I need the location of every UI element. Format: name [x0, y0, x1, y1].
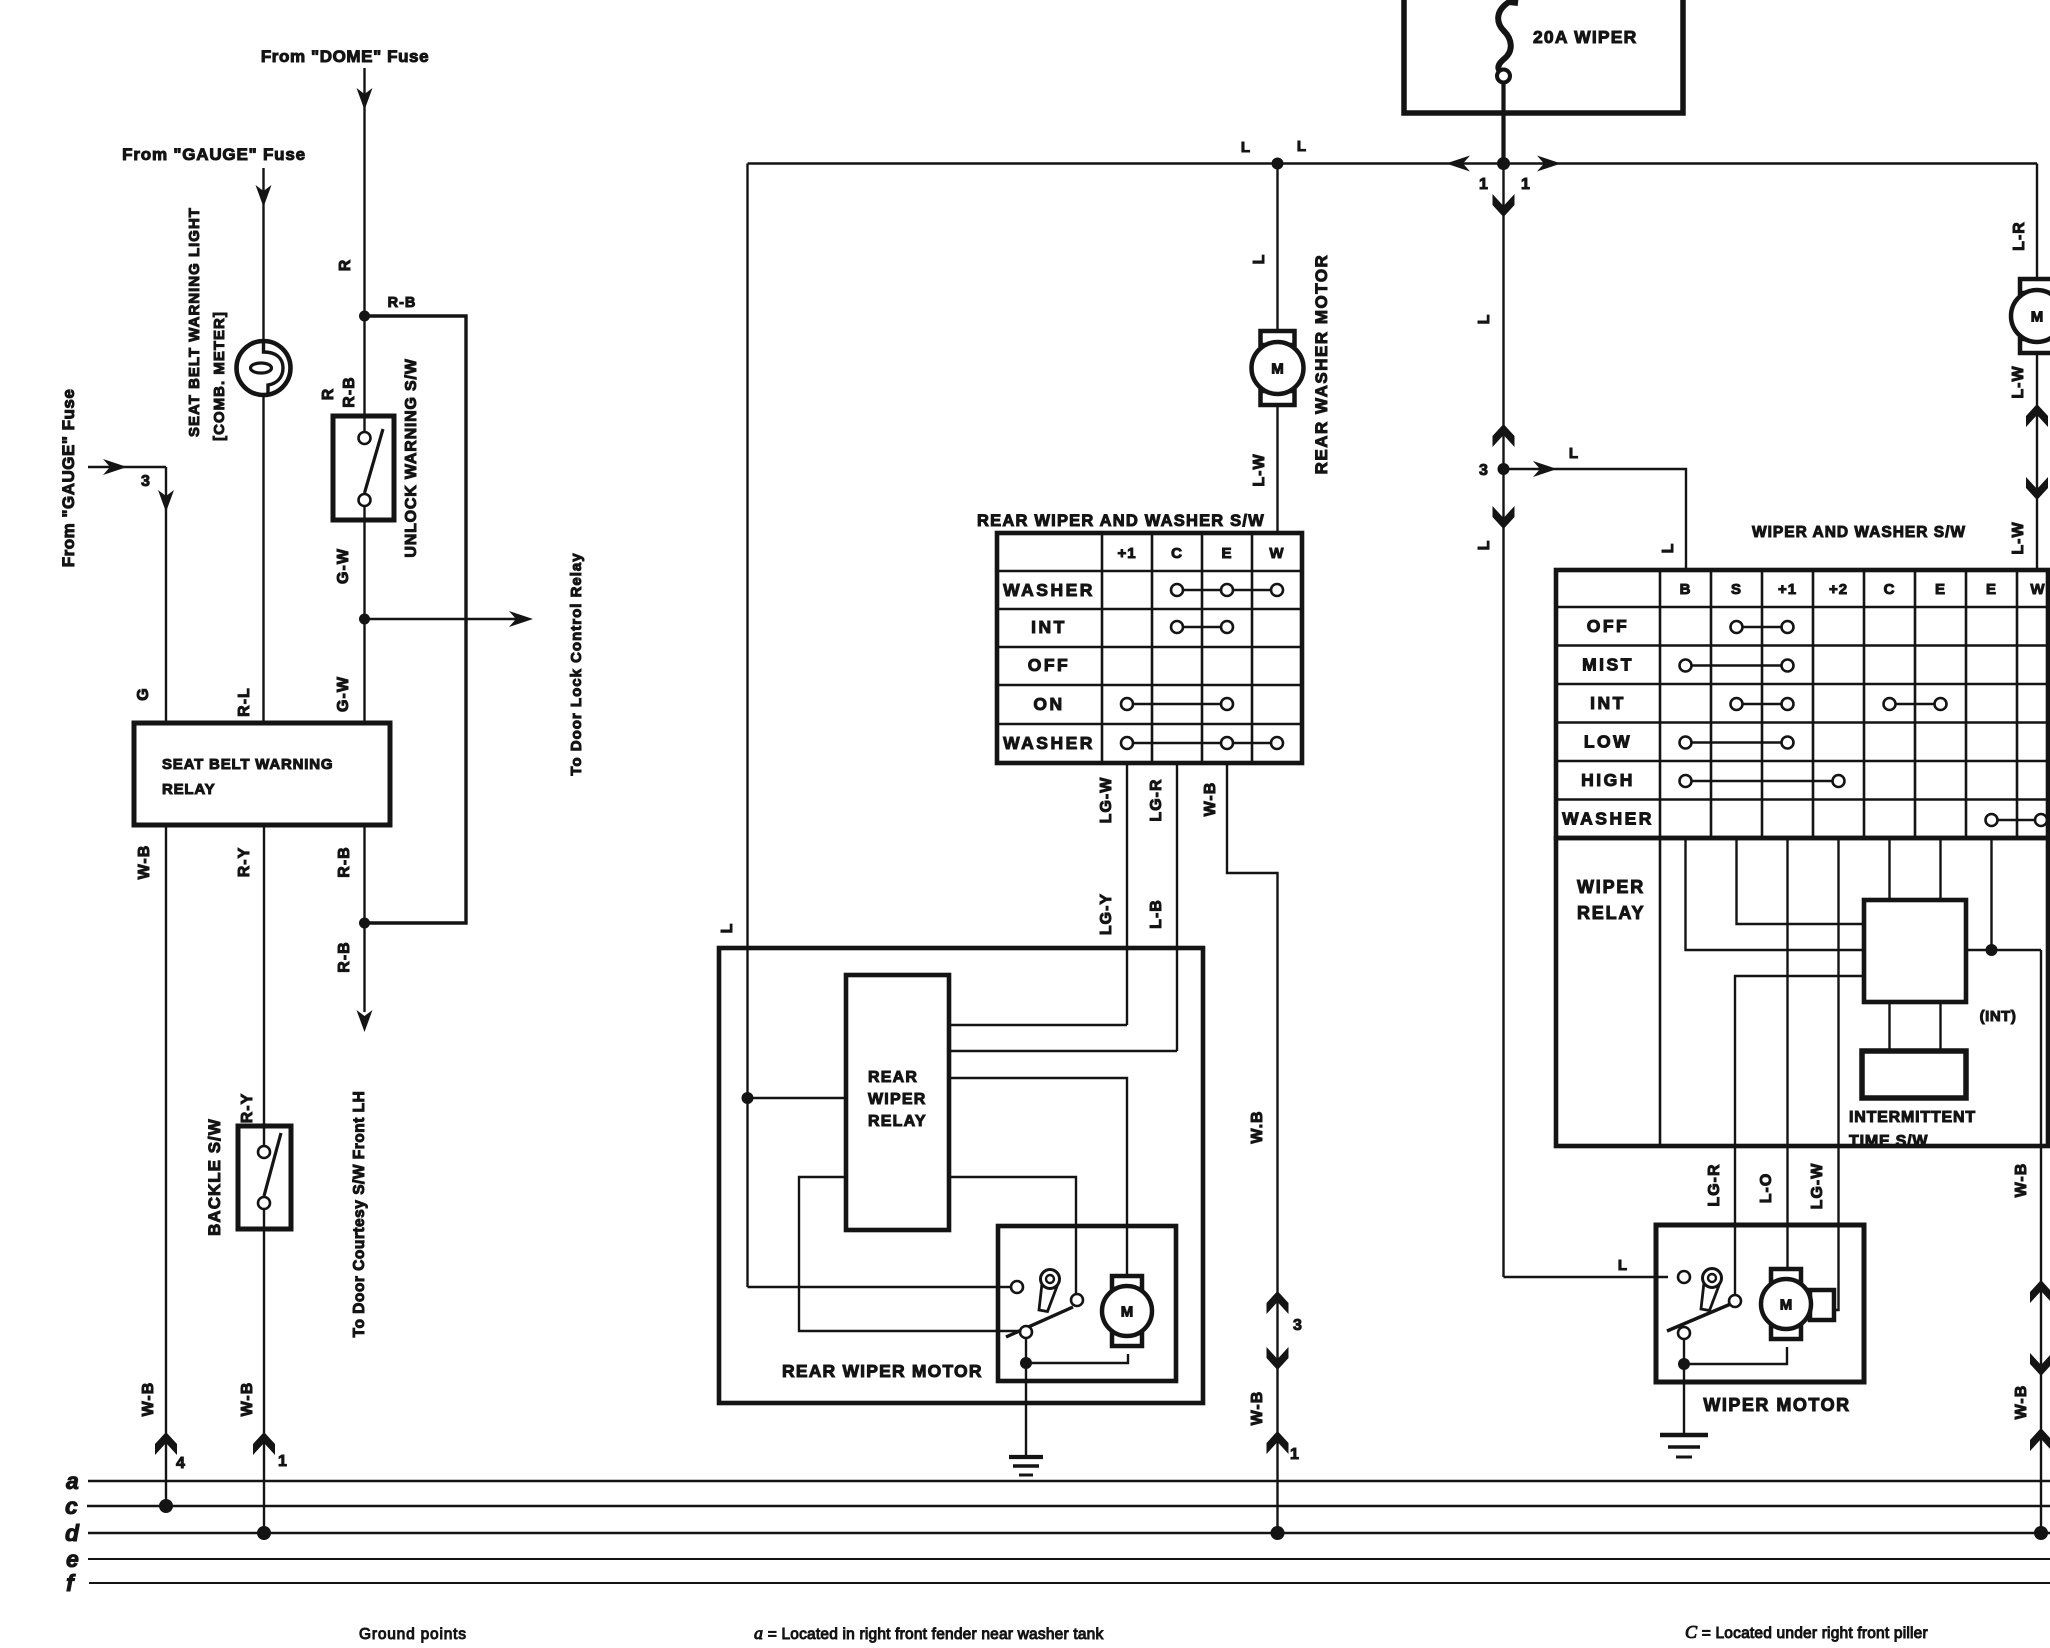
- wire L from bus down to rear washer motor: [1251, 164, 1278, 332]
- wire rear relay to park contact C: [799, 1177, 1019, 1331]
- wiper and washer switch title: [1752, 524, 1966, 541]
- wire: From GAUGE Fuse feed label (top): [122, 145, 306, 164]
- assembly box: rear wiper motor unit: [719, 948, 1203, 1403]
- svg-text:LG-W: LG-W: [1098, 777, 1115, 824]
- wire S terminal to INT unit: [1737, 838, 1867, 924]
- svg-text:E: E: [1935, 581, 1946, 598]
- wire L down-left leg to rear wiper relay: [719, 164, 748, 1288]
- IC: intermittent relay unit (INT): [1864, 900, 2016, 1025]
- wire R-L from lamp down to seat belt warning relay: [262, 395, 264, 723]
- relay: seat belt warning relay: [134, 723, 390, 825]
- wire rear park contact C to motor return + ground node: [1020, 1338, 1128, 1456]
- svg-text:L: L: [1476, 314, 1493, 325]
- svg-text:L-W: L-W: [2010, 365, 2027, 398]
- wire rear relay to L-B: [949, 1050, 1177, 1052]
- wire LG-R from INT unit to park contact: [1735, 976, 1866, 1294]
- lamp: seat belt warning light (comb. meter): [237, 341, 291, 396]
- wire: From DOME Fuse feed label: [261, 47, 429, 66]
- ground bus c: [65, 1493, 2050, 1519]
- svg-text:G: G: [135, 687, 152, 700]
- svg-text:W-B: W-B: [1249, 1391, 1266, 1426]
- svg-text:a: a: [66, 1468, 79, 1494]
- svg-text:L-W: L-W: [2010, 521, 2027, 554]
- wire +2 terminal through relay to front motor LG-W: [1830, 838, 1839, 1310]
- svg-text:W.B: W.B: [1249, 1110, 1266, 1143]
- svg-text:(INT): (INT): [1980, 1008, 2017, 1025]
- svg-text:M: M: [2031, 309, 2044, 326]
- svg-text:To Door Lock Control Relay: To Door Lock Control Relay: [568, 552, 585, 775]
- wire: From GAUGE Fuse (left edge, vertical name): [59, 389, 78, 568]
- svg-text:WASHER: WASHER: [1003, 733, 1095, 753]
- rear table contacts: ON row +1-E: [1121, 698, 1233, 710]
- motor: front wiper motor M: [1761, 1269, 1834, 1339]
- ground: front wiper motor case ground: [1660, 1435, 1708, 1457]
- wire LG-W / LG-Y from rear switch +1 to rear wiper relay: [1098, 763, 1127, 1025]
- wire R-Y from relay down to backle switch: [239, 825, 264, 1152]
- variable resistor: intermittent time S/W: [1862, 1051, 1966, 1098]
- node: L branch into rear wiper relay: [742, 1092, 847, 1104]
- wire front park contact C to motor return + ground node: [1678, 1339, 1787, 1434]
- svg-text:E: E: [1221, 545, 1232, 562]
- wire rear relay to park contact B: [949, 1177, 1076, 1293]
- connector 3 on middle W-B wire: [1249, 1110, 1303, 1370]
- relay: rear wiper relay: [846, 975, 949, 1230]
- svg-text:L-B: L-B: [1148, 899, 1165, 929]
- rear table contacts: WASHER row +1-E-W: [1121, 737, 1283, 749]
- svg-text:From "GAUGE" Fuse: From "GAUGE" Fuse: [122, 145, 306, 164]
- svg-text:OFF: OFF: [1028, 655, 1071, 675]
- ground: rear wiper motor case ground: [1009, 1457, 1043, 1475]
- caption: ground c location: [1685, 1622, 1928, 1642]
- svg-text:1: 1: [278, 1453, 288, 1470]
- wire R from DOME fuse down to R-B node: [357, 68, 373, 316]
- front table contacts: LOW row B-+1: [1680, 737, 1794, 749]
- caption: ground points: [359, 1626, 467, 1643]
- rear wiper motor caption: [782, 1361, 983, 1381]
- svg-text:d: d: [65, 1520, 80, 1546]
- node 3: L branch to wiper switch B terminal: [1476, 445, 1686, 572]
- net: To Door Lock Control Relay: [568, 552, 585, 775]
- front wiper motor caption: [1703, 1395, 1850, 1415]
- seat belt warning light name: [186, 207, 228, 441]
- svg-text:REAR WIPER AND WASHER S/W: REAR WIPER AND WASHER S/W: [977, 512, 1265, 530]
- wire R-B branch loop to lower junction: [365, 316, 467, 923]
- svg-text:L: L: [1660, 543, 1677, 554]
- wire branch to door lock control relay: [365, 611, 534, 627]
- wire L-W from front washer motor to W terminal: [2010, 353, 2048, 572]
- svg-text:a = Located in right front fen: a = Located in right front fender near w…: [754, 1623, 1103, 1643]
- svg-text:LG-Y: LG-Y: [1098, 893, 1115, 935]
- node: fused L supply splits on bus: [1446, 156, 1561, 218]
- node: front W-B to ground d: [2034, 1526, 2048, 1540]
- svg-text:From "DOME" Fuse: From "DOME" Fuse: [261, 47, 429, 66]
- svg-text:BACKLE S/W: BACKLE S/W: [205, 1118, 224, 1236]
- wire rear relay to LG-Y: [949, 1024, 1127, 1026]
- svg-text:S: S: [1731, 581, 1742, 598]
- svg-text:SEAT BELT WARNING: SEAT BELT WARNING: [162, 756, 333, 773]
- svg-text:L-O: L-O: [1758, 1173, 1775, 1204]
- svg-text:L: L: [1251, 254, 1268, 265]
- svg-text:B: B: [1680, 581, 1692, 598]
- svg-text:LOW: LOW: [1584, 732, 1632, 752]
- fuse 20A WIPER: [1497, 2, 1637, 163]
- wire label G: [135, 687, 152, 700]
- rear wiper and washer switch title: [977, 512, 1265, 530]
- svg-text:C: C: [1171, 545, 1183, 562]
- svg-text:G-W: G-W: [335, 676, 352, 712]
- wire label R: [337, 259, 354, 272]
- svg-text:W-B: W-B: [1202, 782, 1219, 817]
- wire: main L bus from rear circuit to fuse: [748, 162, 2038, 164]
- svg-text:R-B: R-B: [388, 295, 417, 311]
- ground bus a: [66, 1468, 2050, 1494]
- svg-text:INTERMITTENT: INTERMITTENT: [1849, 1109, 1976, 1126]
- svg-text:M: M: [1121, 1304, 1134, 1321]
- svg-text:To Door Courtesy S/W Front LH: To Door Courtesy S/W Front LH: [351, 1091, 368, 1338]
- svg-text:W-B: W-B: [2013, 1163, 2030, 1198]
- svg-text:WIPER MOTOR: WIPER MOTOR: [1703, 1395, 1850, 1415]
- svg-text:LG-R: LG-R: [1148, 778, 1165, 821]
- svg-text:REAR WIPER MOTOR: REAR WIPER MOTOR: [782, 1361, 983, 1381]
- svg-text:MIST: MIST: [1582, 655, 1634, 675]
- svg-text:R-Y: R-Y: [236, 847, 253, 878]
- svg-text:R-Y: R-Y: [239, 1093, 256, 1124]
- wire labels W-B / R-Y / R-B below relay: [136, 845, 353, 880]
- svg-text:From "GAUGE" Fuse: From "GAUGE" Fuse: [59, 389, 78, 568]
- unlock warning switch name: [403, 358, 420, 557]
- svg-text:1: 1: [1521, 176, 1531, 193]
- svg-text:W-B: W-B: [239, 1382, 256, 1417]
- fuse box: junction block with 20A WIPER fuse: [1404, 0, 1683, 113]
- svg-text:INT: INT: [1031, 617, 1067, 637]
- park switch inside front wiper motor: [1667, 1269, 1741, 1340]
- svg-text:UNLOCK WARNING S/W: UNLOCK WARNING S/W: [403, 358, 420, 557]
- wire INT unit to time switch (right): [1939, 1002, 1941, 1053]
- svg-text:L: L: [1241, 139, 1251, 156]
- svg-text:G-W: G-W: [335, 548, 352, 584]
- svg-text:c: c: [65, 1493, 78, 1519]
- ground bus f: [66, 1570, 2050, 1596]
- node: left W-B to ground c: [159, 1499, 173, 1513]
- connector 4 on left W-B wire: [140, 1382, 186, 1472]
- node: rear W-B to ground d: [1271, 1526, 1285, 1540]
- wire L-W from rear washer motor to rear switch table: [1251, 405, 1278, 535]
- svg-text:OFF: OFF: [1587, 616, 1630, 636]
- svg-text:3: 3: [1293, 1317, 1303, 1334]
- svg-text:R: R: [337, 259, 354, 272]
- wire labels R / R-B above unlock switch: [320, 376, 358, 407]
- wire L into front wiper motor park contact: [1504, 1257, 1669, 1277]
- wire W-B from backle switch to ground line d: [263, 1209, 265, 1533]
- switch table: wiper and washer S/W: [1556, 570, 2048, 838]
- wire INT unit to time switch (left): [1888, 1002, 1890, 1053]
- svg-text:4: 4: [176, 1455, 186, 1472]
- node L at rear washer branch: [1241, 138, 1307, 170]
- svg-text:R-L: R-L: [236, 687, 253, 717]
- wire G-W from switch to relay with branch node: [335, 507, 370, 723]
- svg-text:M: M: [1271, 361, 1284, 378]
- svg-text:W-B: W-B: [2013, 1385, 2030, 1420]
- svg-text:L: L: [1569, 445, 1579, 462]
- front table contacts: HIGH row B-+2: [1680, 775, 1845, 787]
- switch: unlock warning S/W: [333, 316, 394, 520]
- front table contacts: INT row C-E: [1884, 698, 1947, 710]
- svg-text:e: e: [66, 1546, 79, 1572]
- wire E terminal into INT unit: [1939, 838, 1941, 902]
- svg-text:WASHER: WASHER: [1562, 809, 1654, 829]
- svg-text:RELAY: RELAY: [162, 781, 215, 798]
- svg-text:E: E: [1986, 581, 1997, 598]
- svg-text:20A WIPER: 20A WIPER: [1533, 27, 1637, 47]
- svg-text:W-B: W-B: [140, 1382, 157, 1417]
- svg-text:1: 1: [1290, 1446, 1300, 1463]
- node: backle W-B to ground d: [257, 1526, 271, 1540]
- motor: rear wiper motor M: [1102, 1276, 1152, 1346]
- motor: rear washer motor: [1252, 331, 1304, 405]
- svg-text:L: L: [1476, 540, 1493, 551]
- svg-text:LG-W: LG-W: [1809, 1163, 1826, 1210]
- svg-text:[COMB. METER]: [COMB. METER]: [211, 311, 228, 441]
- ground bus d: [65, 1520, 2050, 1546]
- connector 1 on middle W-B wire: [1249, 1391, 1300, 1463]
- rear table contacts: WASHER row C-E-W: [1171, 584, 1283, 596]
- svg-text:R-B: R-B: [341, 376, 358, 407]
- wire +1 terminal through relay to front motor L-O: [1786, 838, 1788, 1272]
- svg-text:LG-R: LG-R: [1706, 1163, 1723, 1206]
- svg-text:M: M: [1780, 1297, 1793, 1314]
- svg-text:TIME S/W: TIME S/W: [1849, 1133, 1928, 1150]
- node: R-B junction at unlock warning branch: [359, 295, 416, 322]
- svg-text:L-R: L-R: [2011, 221, 2028, 251]
- svg-text:C = Located under right front: C = Located under right front piller: [1685, 1622, 1928, 1642]
- svg-text:3: 3: [1479, 462, 1489, 479]
- wire L-R from bus down to front washer motor: [2011, 164, 2037, 280]
- front table contacts: WASHER row E-W: [1986, 814, 2048, 826]
- switch: backle S/W: [238, 1126, 291, 1229]
- wire B terminal to INT unit: [1686, 838, 1867, 950]
- connector W-B on right ground drop: [2013, 1163, 2050, 1451]
- svg-text:ON: ON: [1033, 694, 1064, 714]
- svg-text:REAR: REAR: [868, 1069, 918, 1086]
- ground bus e: [66, 1546, 2050, 1572]
- backle switch name: [205, 1118, 224, 1236]
- svg-text:RELAY: RELAY: [868, 1113, 927, 1130]
- svg-text:+2: +2: [1829, 581, 1848, 598]
- wire W-B from rear switch E down to ground line d: [1202, 763, 1278, 1533]
- svg-text:+1: +1: [1778, 581, 1797, 598]
- svg-text:L: L: [719, 923, 736, 934]
- relay: wiper relay enclosure: [1556, 838, 2048, 1146]
- svg-text:R-B: R-B: [336, 846, 353, 877]
- caption: ground a location: [754, 1623, 1103, 1643]
- svg-text:R: R: [320, 388, 337, 401]
- svg-text:Ground points: Ground points: [359, 1626, 467, 1643]
- wire L from fuse node down front circuit: [1476, 164, 1515, 1278]
- svg-text:WASHER: WASHER: [1003, 580, 1095, 600]
- svg-text:L-W: L-W: [1251, 453, 1268, 486]
- front table contacts: OFF row S-+1: [1731, 621, 1794, 633]
- front table contacts: INT row S-+1: [1731, 698, 1794, 710]
- svg-text:RELAY: RELAY: [1577, 903, 1645, 923]
- svg-text:WIPER AND WASHER S/W: WIPER AND WASHER S/W: [1752, 524, 1966, 541]
- motor: front washer motor: [2011, 279, 2050, 353]
- wire E terminal to INT unit and W-B ground drop: [1966, 838, 2041, 1533]
- wire from GAUGE fuse into pin 3 of relay: [88, 459, 174, 723]
- park switch inside rear wiper motor: [1006, 1270, 1083, 1339]
- wire C terminal into INT unit: [1888, 838, 1890, 902]
- svg-text:W: W: [2030, 581, 2045, 598]
- wire L into rear park switch contact A: [748, 1286, 1011, 1288]
- assembly box: front wiper motor: [1656, 1225, 1864, 1382]
- wire label R-L: [236, 687, 253, 717]
- svg-text:3: 3: [141, 473, 151, 490]
- rear washer motor name: [1312, 254, 1331, 475]
- svg-text:REAR WASHER MOTOR: REAR WASHER MOTOR: [1312, 254, 1331, 475]
- wire labels LG-R / L-O / LG-W below wiper relay: [1706, 1163, 1826, 1210]
- svg-text:W: W: [1269, 545, 1284, 562]
- svg-text:+1: +1: [1117, 545, 1136, 562]
- svg-text:1: 1: [1479, 176, 1489, 193]
- rear table contacts: INT row C-E: [1171, 621, 1233, 633]
- svg-text:SEAT BELT WARNING LIGHT: SEAT BELT WARNING LIGHT: [186, 207, 203, 437]
- connector 1 on R-Y/W-B wire: [239, 1382, 288, 1470]
- intermittent time switch name: [1849, 1109, 1976, 1150]
- net: To Door Courtesy S/W Front LH: [351, 1091, 368, 1338]
- svg-text:L: L: [1618, 1257, 1628, 1274]
- svg-text:R-B: R-B: [336, 941, 353, 972]
- svg-text:HIGH: HIGH: [1581, 770, 1635, 790]
- wire R-B from relay to lower junction, ends with arrow: [336, 825, 373, 1032]
- wire LG-R / L-B from rear switch C to rear wiper relay: [1148, 763, 1177, 1051]
- wire from GAUGE fuse down to lamp: [256, 168, 272, 342]
- wire rear relay to rear motor +: [949, 1078, 1127, 1279]
- svg-text:WIPER: WIPER: [868, 1091, 926, 1108]
- switch table: rear wiper and washer S/W: [997, 533, 1302, 763]
- wire W-B from relay down to ground line c: [165, 825, 167, 1506]
- svg-text:WIPER: WIPER: [1577, 877, 1645, 897]
- svg-text:INT: INT: [1590, 693, 1626, 713]
- inner box: rear motor+park switch assembly: [998, 1226, 1176, 1381]
- svg-text:C: C: [1884, 581, 1896, 598]
- front table contacts: MIST row B-+1: [1680, 660, 1794, 672]
- svg-text:L: L: [1297, 138, 1307, 155]
- svg-text:W-B: W-B: [136, 845, 153, 880]
